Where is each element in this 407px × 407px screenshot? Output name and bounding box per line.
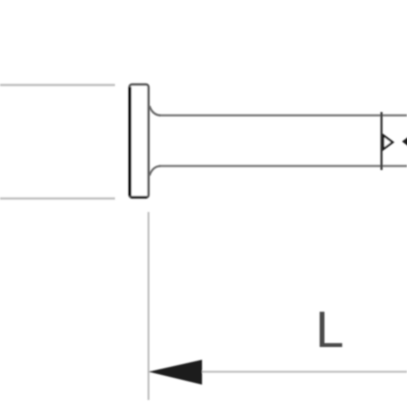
nail head bottom edge emphasis: [131, 196, 147, 199]
clamped part bottom line: [0, 197, 115, 199]
shank break line: [380, 112, 382, 170]
svg-text:L: L: [316, 301, 344, 358]
nail head left face emphasis: [129, 87, 132, 196]
clamped part top line: [0, 84, 115, 86]
extension line for L: [148, 212, 150, 400]
dimension line L: [150, 371, 407, 373]
fillet under head bottom: [150, 166, 161, 176]
fillet under head top: [150, 106, 161, 115]
shank top line: [159, 114, 407, 116]
break arrow pointing left (clipped at right edge): [402, 135, 407, 148]
break arrow pointing right (hollow): [383, 135, 392, 149]
dimension arrowhead: [149, 360, 203, 385]
shank bottom line: [159, 165, 407, 167]
nail head outline: [130, 85, 149, 198]
